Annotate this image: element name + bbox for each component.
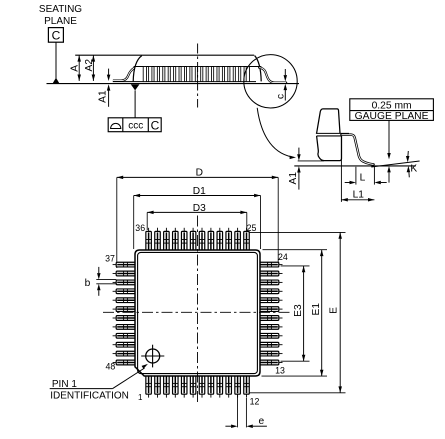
lead detail parting lines bbox=[316, 132, 349, 134]
ccc feature control frame bbox=[108, 118, 161, 132]
D extension lines bbox=[116, 177, 118, 268]
E1 extension lines bbox=[263, 249, 328, 251]
ccc datum triangle bbox=[131, 84, 140, 90]
package body inner bbox=[138, 252, 258, 373]
top pins 25-36 bbox=[146, 231, 152, 250]
svg-text:e: e bbox=[258, 416, 264, 427]
lead detail bent lead bbox=[342, 135, 374, 165]
svg-text:b: b bbox=[85, 278, 91, 289]
detail leader arrow bbox=[257, 108, 291, 157]
E extension lines bbox=[249, 231, 346, 233]
svg-text:C: C bbox=[151, 118, 160, 132]
svg-text:SEATING: SEATING bbox=[39, 4, 82, 15]
svg-text:0.25 mm: 0.25 mm bbox=[372, 101, 412, 112]
svg-text:PIN 1: PIN 1 bbox=[52, 379, 77, 390]
svg-text:12: 12 bbox=[250, 396, 260, 406]
svg-text:IDENTIFICATION: IDENTIFICATION bbox=[50, 391, 129, 402]
lead detail body bbox=[317, 109, 342, 161]
gauge plane box bbox=[350, 99, 434, 121]
svg-text:A1: A1 bbox=[97, 90, 108, 103]
L extension lines bbox=[355, 167, 357, 185]
svg-text:L1: L1 bbox=[353, 189, 365, 200]
svg-text:48: 48 bbox=[106, 362, 116, 372]
svg-text:A1: A1 bbox=[288, 172, 299, 185]
bottom pins 1-12 bbox=[146, 375, 152, 394]
dimension L1 bbox=[341, 199, 374, 201]
top view vertical centerline bbox=[197, 216, 199, 403]
svg-text:1: 1 bbox=[138, 393, 143, 402]
dimension E bbox=[339, 232, 341, 392]
svg-text:A2: A2 bbox=[84, 59, 95, 72]
dimension c bbox=[284, 69, 286, 75]
dimension K bbox=[406, 156, 410, 162]
leads top line bbox=[134, 66, 262, 68]
D3 extension lines bbox=[146, 212, 148, 230]
detail circle bbox=[244, 55, 297, 108]
dimension D bbox=[117, 176, 278, 178]
body left end curve bbox=[133, 56, 142, 82]
side view centerline bbox=[197, 44, 199, 108]
datum C leader bbox=[55, 42, 57, 78]
svg-text:PLANE: PLANE bbox=[44, 16, 77, 27]
dimension E1 bbox=[321, 250, 323, 376]
svg-text:37: 37 bbox=[105, 253, 115, 263]
e extension lines bbox=[237, 395, 239, 428]
b extension lines bbox=[96, 279, 116, 281]
seating plane line bbox=[47, 83, 300, 85]
svg-text:36: 36 bbox=[135, 223, 145, 233]
package body outer bbox=[135, 250, 260, 376]
dimension L bbox=[345, 182, 350, 184]
dimension D1 bbox=[134, 195, 261, 197]
right lead side view bbox=[259, 68, 286, 83]
right pins 13-24 bbox=[260, 262, 279, 267]
pin 1 identification circle bbox=[146, 349, 160, 363]
dimension D3 bbox=[147, 211, 247, 213]
svg-text:E3: E3 bbox=[293, 304, 304, 317]
E3 extension lines bbox=[281, 265, 310, 267]
D1 extension lines bbox=[133, 196, 135, 250]
dimension E3 bbox=[303, 266, 305, 361]
svg-text:E1: E1 bbox=[311, 303, 322, 316]
datum C triangle bbox=[53, 78, 60, 84]
dimension A bbox=[78, 55, 80, 81]
L1 extension line bbox=[340, 137, 342, 202]
gauge plane leader bbox=[388, 120, 390, 153]
svg-text:24: 24 bbox=[278, 252, 288, 262]
side view lead comb bbox=[143, 67, 146, 82]
left pins 37-48 bbox=[116, 262, 135, 267]
svg-text:C: C bbox=[52, 29, 61, 43]
package top line bbox=[75, 54, 254, 56]
K angle line bbox=[371, 161, 419, 167]
pin 1 leader bbox=[50, 388, 113, 390]
svg-text:c: c bbox=[275, 94, 286, 99]
svg-text:E: E bbox=[329, 307, 340, 314]
svg-text:GAUGE PLANE: GAUGE PLANE bbox=[355, 111, 429, 122]
dimension A2 bbox=[92, 55, 94, 81]
dimension A1 side view bbox=[108, 69, 110, 75]
svg-text:D: D bbox=[196, 168, 203, 179]
left lead side view bbox=[113, 68, 135, 81]
svg-text:A: A bbox=[69, 65, 80, 72]
detail seating plane line bbox=[294, 165, 415, 167]
svg-text:25: 25 bbox=[247, 223, 257, 233]
datum C symbol box bbox=[48, 28, 63, 43]
svg-text:ccc: ccc bbox=[128, 121, 143, 132]
svg-text:13: 13 bbox=[275, 365, 285, 375]
svg-text:D3: D3 bbox=[193, 203, 206, 214]
svg-text:L: L bbox=[360, 173, 366, 184]
dimension b bbox=[98, 267, 100, 273]
top view horizontal centerline bbox=[103, 311, 292, 313]
svg-text:D1: D1 bbox=[193, 186, 206, 197]
svg-text:K: K bbox=[410, 164, 417, 175]
detail body bottom extension bbox=[298, 160, 324, 162]
dimension A1 detail bbox=[298, 148, 300, 155]
dimension e bbox=[225, 425, 231, 427]
leads bottom line bbox=[113, 81, 256, 83]
body right end curve bbox=[255, 56, 262, 82]
